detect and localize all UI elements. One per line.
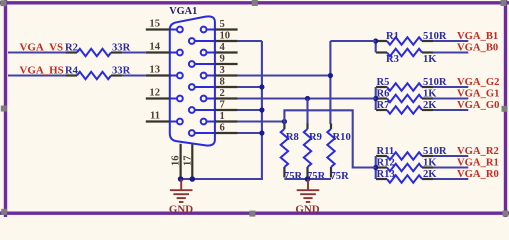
wire VGA_HS <box>8 74 66 76</box>
wire VGA_VS <box>8 51 66 53</box>
svg-text:R4: R4 <box>65 66 79 77</box>
resistor R11 510R <box>376 155 387 157</box>
wire R net to R11 group <box>284 110 375 167</box>
svg-text:R5: R5 <box>377 77 390 88</box>
svg-text:9: 9 <box>220 53 225 64</box>
svg-text:6: 6 <box>220 122 225 133</box>
svg-text:R9: R9 <box>309 132 322 143</box>
pin 16 <box>180 144 182 178</box>
svg-text:GND: GND <box>295 204 319 216</box>
svg-text:R10: R10 <box>333 132 351 143</box>
bus joining R11..R13 <box>375 156 377 179</box>
resistor R3 1K <box>376 51 387 53</box>
wire pin3 blue video net <box>238 74 331 76</box>
pin 3 <box>215 74 238 76</box>
ground rail vertical <box>181 41 262 179</box>
svg-text:VGA_B1: VGA_B1 <box>457 31 498 42</box>
svg-text:3: 3 <box>220 65 225 76</box>
svg-text:R3: R3 <box>386 54 399 65</box>
pin 5 <box>215 28 238 30</box>
svg-text:R1: R1 <box>386 31 399 42</box>
svg-text:R2: R2 <box>65 43 78 54</box>
svg-text:33R: 33R <box>112 66 131 77</box>
ground symbol GND (connector shield) <box>170 179 193 202</box>
svg-text:75R: 75R <box>331 171 350 182</box>
pin 15 <box>146 28 170 30</box>
svg-text:R11: R11 <box>377 146 395 157</box>
resistor R5 510R <box>376 86 387 88</box>
junction R9 top <box>305 96 310 101</box>
wire pin8 <box>238 86 262 88</box>
pin 1 <box>215 120 238 122</box>
bus joining R5..R7 <box>375 87 377 110</box>
svg-text:14: 14 <box>149 41 160 52</box>
resistor R9 75R <box>306 124 308 130</box>
svg-text:13: 13 <box>149 64 160 75</box>
svg-text:R8: R8 <box>286 132 299 143</box>
junction <box>373 165 378 170</box>
wire pin6 <box>238 132 262 134</box>
pin 8 <box>215 86 238 88</box>
resistor R13 2K <box>376 178 387 180</box>
resistor R6 1K <box>376 97 387 99</box>
wire to net VGA_R1 <box>433 166 468 168</box>
pin 14 <box>146 51 170 53</box>
svg-text:10: 10 <box>220 30 231 41</box>
svg-text:VGA_G1: VGA_G1 <box>457 89 499 100</box>
svg-text:11: 11 <box>150 110 160 121</box>
terminator ground bus <box>284 178 331 180</box>
resistor R1 510R <box>376 40 387 42</box>
svg-text:8: 8 <box>220 76 225 87</box>
wire to net VGA_B1 <box>433 40 468 42</box>
svg-text:VGA_R1: VGA_R1 <box>457 158 499 169</box>
junction R8 top <box>282 119 287 124</box>
junction pin17 <box>190 176 196 182</box>
svg-text:17: 17 <box>182 155 193 166</box>
junction pin7/rail <box>259 107 264 112</box>
resistor R2 33R <box>66 51 77 53</box>
junction <box>373 38 378 43</box>
svg-text:12: 12 <box>149 87 160 98</box>
wire to net VGA_R0 <box>433 178 468 180</box>
resistor R10 75R <box>330 124 332 130</box>
resistor R7 2K <box>376 109 387 111</box>
connector pin holes <box>170 27 214 136</box>
svg-text:1K: 1K <box>423 54 437 65</box>
junction pin6/rail <box>259 130 264 135</box>
junction pin8/rail <box>259 84 264 89</box>
svg-text:R13: R13 <box>377 169 395 180</box>
svg-text:15: 15 <box>149 18 160 29</box>
svg-text:4: 4 <box>220 42 226 53</box>
svg-text:5: 5 <box>220 19 225 30</box>
svg-text:VGA_R0: VGA_R0 <box>457 169 499 180</box>
pin 2 <box>215 97 238 99</box>
ground symbol GND (terminators) <box>297 179 320 202</box>
pin 4 <box>215 51 238 53</box>
bus joining R1..R3 <box>375 41 377 53</box>
wire pin7 <box>238 109 262 111</box>
svg-text:1: 1 <box>220 111 225 122</box>
wire to net VGA_G2 <box>433 86 468 88</box>
connector J body (DB15) <box>170 16 215 145</box>
svg-text:16: 16 <box>171 155 182 166</box>
wire B net riser to R1/R3 <box>330 40 375 42</box>
junction pin3/R10 <box>328 73 333 78</box>
resistor R8 75R <box>283 124 285 130</box>
pin 13 <box>146 74 170 76</box>
wire to net VGA_B0 <box>433 51 468 53</box>
junction <box>373 96 378 101</box>
resistor R12 1K <box>376 166 387 168</box>
pin 6 <box>215 132 238 134</box>
svg-text:VGA_G0: VGA_G0 <box>457 100 499 111</box>
wire to net VGA_G1 <box>433 97 468 99</box>
svg-text:33R: 33R <box>112 43 131 54</box>
svg-text:VGA_VS: VGA_VS <box>20 42 64 54</box>
svg-text:75R: 75R <box>284 171 303 182</box>
junction pin16 <box>178 176 184 182</box>
pin 10 <box>215 40 238 42</box>
svg-text:VGA_G2: VGA_G2 <box>457 77 499 88</box>
pin 17 <box>191 145 193 178</box>
wire pin10 to ground rail <box>238 40 262 42</box>
pin 12 <box>146 97 170 99</box>
resistor R4 33R <box>66 74 77 76</box>
junction R9 bottom <box>305 176 311 182</box>
svg-text:R6: R6 <box>377 89 390 100</box>
wire to net VGA_R2 <box>433 155 468 157</box>
pin 11 <box>146 120 170 122</box>
wire to net VGA_G0 <box>433 109 468 111</box>
svg-text:GND: GND <box>169 204 193 216</box>
svg-text:VGA1: VGA1 <box>169 6 197 17</box>
svg-text:VGA_R2: VGA_R2 <box>457 146 499 157</box>
svg-text:2: 2 <box>220 88 225 99</box>
pin 7 <box>215 109 238 111</box>
wire pin2 green video net <box>238 97 376 99</box>
pin 9 <box>215 63 238 65</box>
svg-text:VGA_HS: VGA_HS <box>20 65 64 77</box>
svg-text:7: 7 <box>220 99 226 110</box>
svg-text:R7: R7 <box>377 100 391 111</box>
wire pin1 red video net <box>238 120 285 122</box>
svg-text:VGA_B0: VGA_B0 <box>457 43 498 54</box>
svg-text:R12: R12 <box>377 158 395 169</box>
